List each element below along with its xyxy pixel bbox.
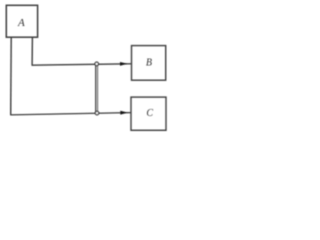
svg-text:B: B xyxy=(146,58,152,69)
block B xyxy=(132,46,166,81)
wire top horizontal to B xyxy=(32,64,131,65)
node junction bottom xyxy=(95,111,99,115)
wire A-right vertical xyxy=(31,37,33,65)
svg-text:A: A xyxy=(17,17,25,29)
arrow into C xyxy=(120,111,128,115)
wire bottom horizontal to C xyxy=(10,113,131,115)
svg-text:C: C xyxy=(146,108,153,119)
block A xyxy=(6,5,37,37)
bus double line between nodes xyxy=(95,66,97,113)
node junction top xyxy=(95,62,99,66)
wire A-left vertical xyxy=(10,37,13,115)
block C xyxy=(131,97,166,130)
arrow into B xyxy=(120,62,128,66)
